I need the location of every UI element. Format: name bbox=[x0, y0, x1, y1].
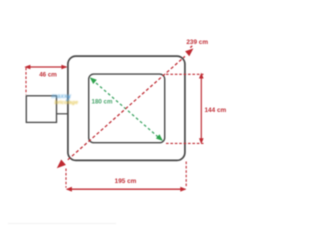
dim 46: left arrowhead bbox=[24, 65, 30, 70]
green diagonal dashed line 180 bbox=[92, 80, 161, 140]
dim 144: down arrowhead bbox=[199, 138, 204, 144]
red diagonal dashed line 239 bbox=[68, 56, 185, 159]
green arrowhead up-left bbox=[90, 77, 97, 84]
dim 144: top extension dashed bbox=[166, 73, 204, 75]
red diagonal arrowhead top-right bbox=[185, 48, 193, 56]
svg-text:144 cm: 144 cm bbox=[205, 107, 227, 114]
dim 46: extension dashed vertical bbox=[25, 68, 27, 95]
svg-text:180 cm: 180 cm bbox=[92, 99, 113, 106]
dim 195: right extension dashed bbox=[185, 162, 187, 188]
red diagonal tiny dash near label bbox=[190, 46, 192, 48]
svg-text:239 cm: 239 cm bbox=[186, 39, 208, 46]
svg-text:195 cm: 195 cm bbox=[115, 178, 137, 185]
dim 144: bottom extension dashed bbox=[166, 142, 204, 144]
inner frame bbox=[89, 74, 165, 143]
dim 144: vertical line bbox=[200, 75, 202, 142]
outer frame bbox=[68, 56, 185, 160]
dim 195: right arrowhead bbox=[180, 187, 186, 192]
svg-text:bricolage: bricolage bbox=[55, 100, 79, 106]
dim 46: right arrowhead bbox=[61, 65, 67, 70]
dim 195: left extension dashed bbox=[65, 169, 67, 188]
watermark line 1 (blue) bbox=[52, 93, 72, 103]
dim 195: left arrowhead bbox=[66, 187, 72, 192]
faint artifact line bbox=[8, 223, 116, 225]
svg-text:46 cm: 46 cm bbox=[39, 71, 57, 78]
green arrowhead down-right bbox=[156, 134, 163, 141]
dim 195: horizontal line bbox=[67, 188, 185, 190]
dim 144: up arrowhead bbox=[199, 73, 204, 79]
watermark line 2 (yellow) bbox=[55, 100, 79, 106]
dim 46: horizontal line bbox=[26, 66, 67, 68]
bracket connector line bbox=[57, 113, 69, 115]
red diagonal arrowhead bottom-left bbox=[57, 160, 66, 169]
bracket box bbox=[26, 96, 56, 123]
